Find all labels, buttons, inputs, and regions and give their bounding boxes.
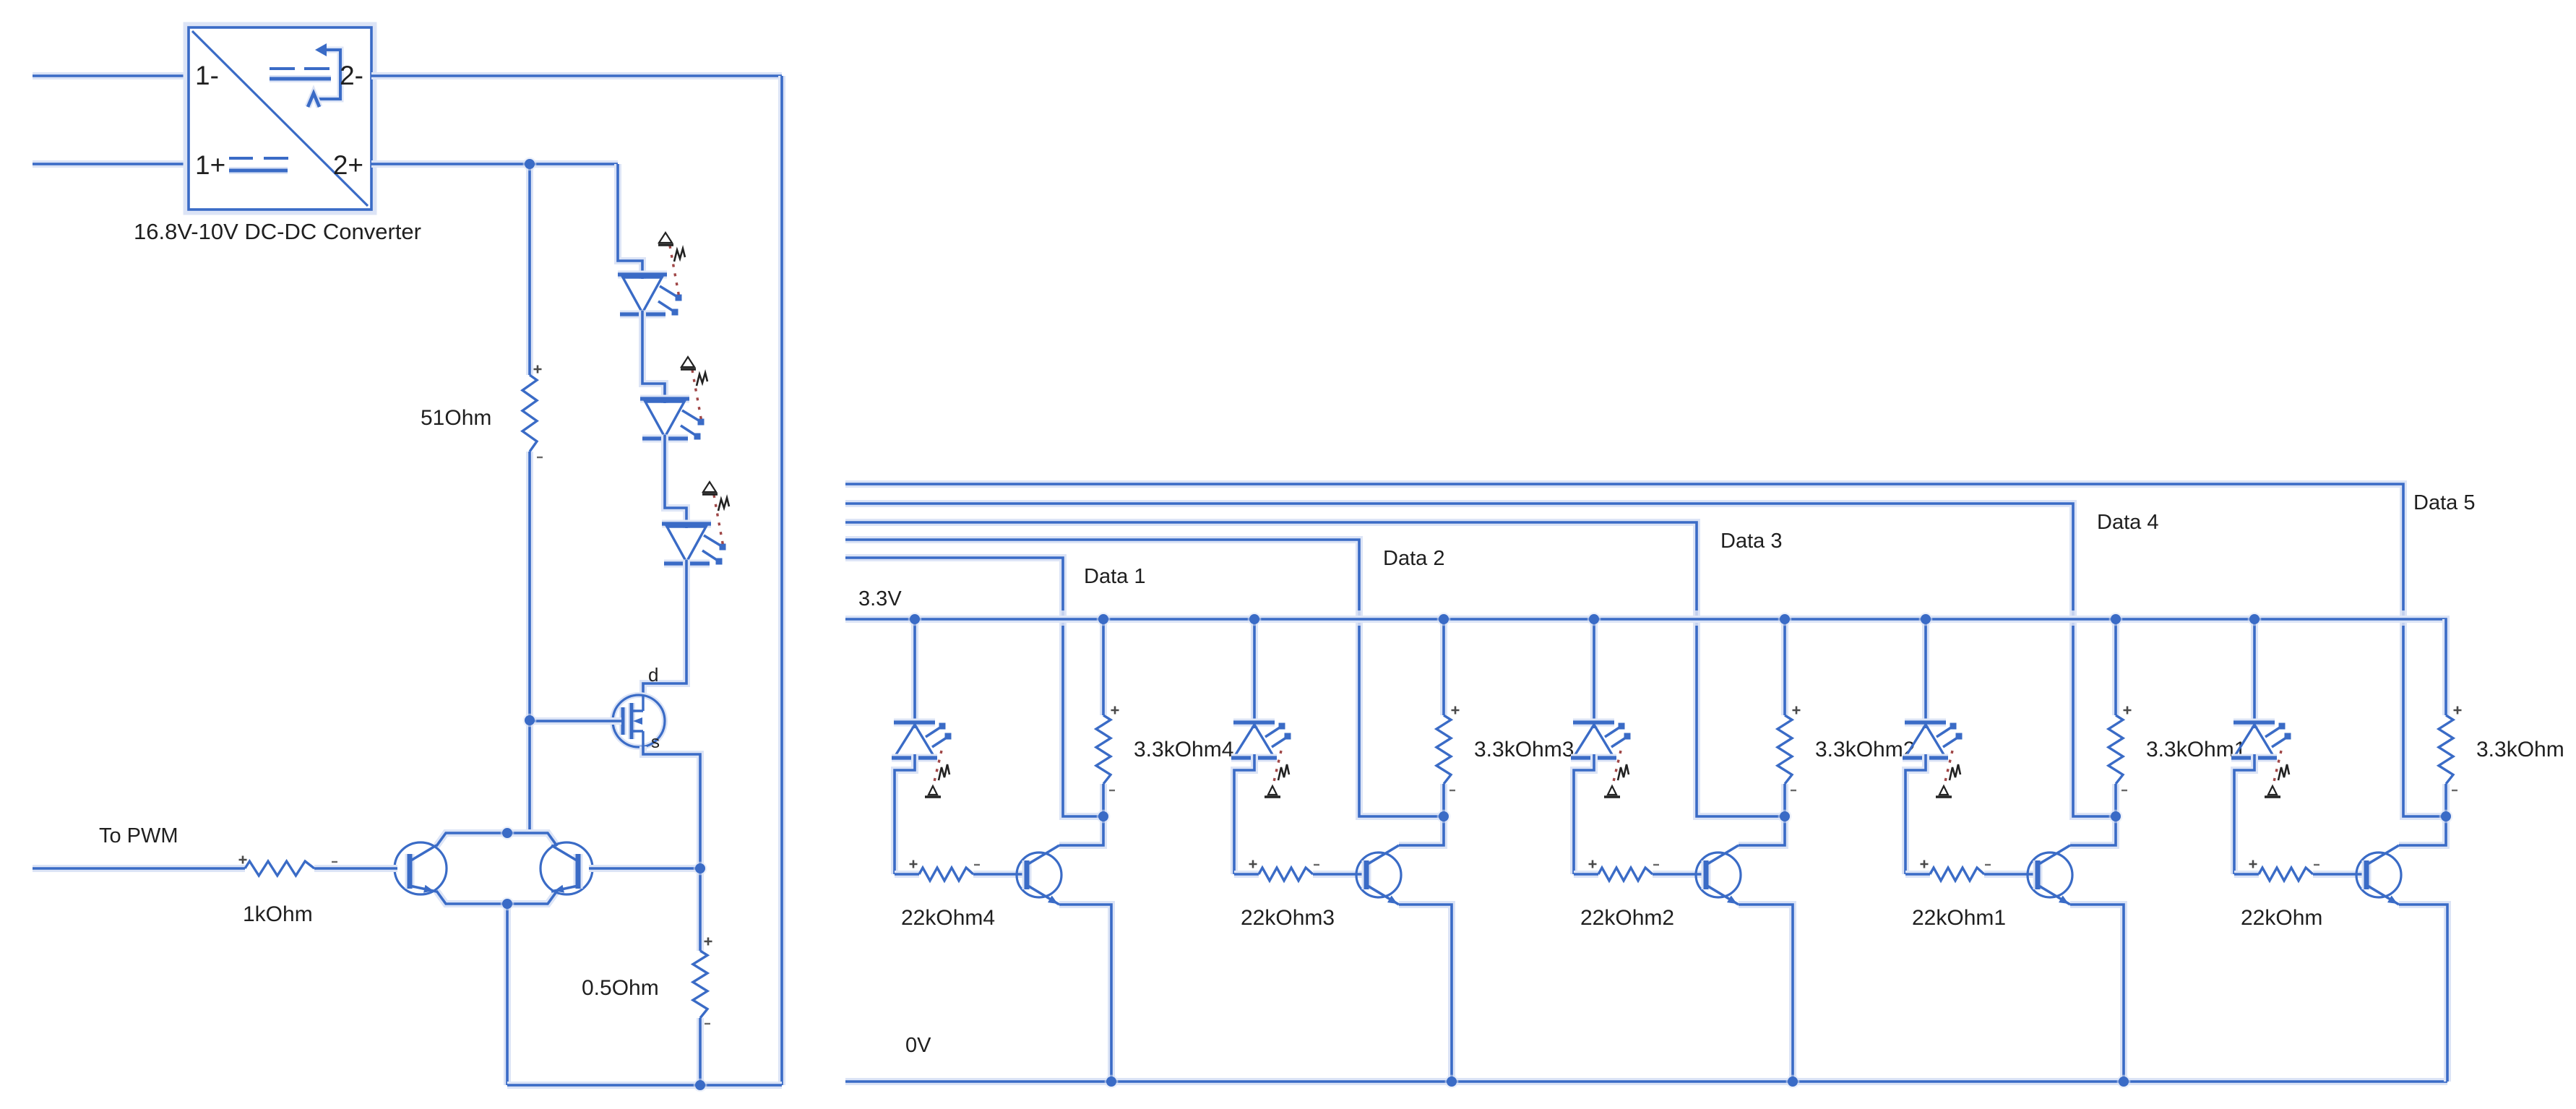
label Data 4 bbox=[2097, 511, 2158, 534]
wire gate to 51Ohm node bbox=[530, 717, 621, 725]
svg-text:3.3V: 3.3V bbox=[858, 587, 902, 610]
LED D8 (channel 5) bbox=[2231, 722, 2291, 797]
wire collector to resistor node (channel 2) bbox=[1399, 816, 1444, 845]
label 3.3V bbox=[858, 587, 902, 610]
label 22kOhm2 bbox=[1580, 906, 1674, 930]
transistor Q5 (channel 2) bbox=[1356, 845, 1401, 905]
junction node collector / 3.3kOhm4 bbox=[1097, 810, 1111, 824]
wire D3 cathode to MOSFET drain bbox=[643, 560, 686, 696]
svg-text:0.5Ohm: 0.5Ohm bbox=[582, 976, 659, 1000]
wire 3.3V to LED5 bbox=[2251, 619, 2258, 728]
svg-text:1+: 1+ bbox=[195, 150, 225, 180]
svg-text:51Ohm: 51Ohm bbox=[421, 406, 491, 430]
wire LED1 anode to base resistor bbox=[895, 754, 915, 874]
svg-text:22kOhm2: 22kOhm2 bbox=[1580, 906, 1674, 930]
junction node 3.3V / LED1 column bbox=[908, 613, 922, 626]
wire emitter to 0V (channel 2) bbox=[1399, 905, 1452, 1082]
transistor Q8 (channel 5) bbox=[2356, 845, 2401, 905]
label To PWM bbox=[99, 824, 178, 847]
wire right vertical rail bbox=[778, 76, 785, 1085]
junction node emitter / 0V (channel 1) bbox=[1105, 1075, 1119, 1089]
label Data 1 bbox=[1084, 565, 1145, 588]
label 3.3kOhm4 bbox=[1134, 738, 1233, 761]
resistor 3.3kOhm4 bbox=[1096, 619, 1119, 816]
wire 3.3V to LED3 bbox=[1590, 619, 1598, 728]
wire D1 cathode to D2 anode bbox=[642, 311, 665, 403]
resistor 3.3kOhm bbox=[2439, 619, 2462, 816]
resistor 3.3kOhm2 bbox=[1778, 619, 1801, 816]
DC-DC converter U1 bbox=[186, 25, 374, 212]
svg-text:3.3kOhm2: 3.3kOhm2 bbox=[1815, 738, 1915, 761]
resistor R1 51Ohm bbox=[522, 164, 543, 720]
label 3.3kOhm2 bbox=[1815, 738, 1915, 761]
label Data 5 bbox=[2413, 491, 2475, 514]
LED D1 bbox=[618, 233, 685, 316]
wire input 1+ from left edge bbox=[33, 160, 189, 168]
wire 2+ output bbox=[371, 160, 618, 168]
resistor R3 0.5Ohm bbox=[693, 868, 712, 1085]
label Data 3 bbox=[1720, 530, 1782, 553]
resistor R2 1kOhm bbox=[33, 856, 397, 876]
label s (source) bbox=[651, 733, 660, 752]
junction node emitter / 0V (channel 3) bbox=[1786, 1075, 1800, 1089]
label 0V bbox=[905, 1034, 931, 1057]
transistor Q4 (channel 1) bbox=[1017, 845, 1061, 905]
svg-text:Data 5: Data 5 bbox=[2413, 491, 2475, 514]
junction node 3.3V / 3.3kOhm2 bbox=[1778, 613, 1792, 626]
transistor Q6 (channel 3) bbox=[1696, 845, 1741, 905]
wire emitter to 0V (channel 3) bbox=[1739, 905, 1793, 1082]
wire LED3 anode to base resistor bbox=[1574, 754, 1594, 874]
junction node collector / 3.3kOhm bbox=[2439, 810, 2453, 824]
wire LED5 anode to base resistor bbox=[2234, 754, 2254, 874]
junction node emitter / 0V (channel 2) bbox=[1445, 1075, 1459, 1089]
wire D2 cathode to D3 anode bbox=[665, 435, 686, 528]
junction node 3.3V / 3.3kOhm1 bbox=[2109, 613, 2123, 626]
wire Data 2 line bbox=[845, 540, 1444, 816]
junction node collector / 3.3kOhm3 bbox=[1437, 810, 1451, 824]
svg-text:1kOhm: 1kOhm bbox=[243, 902, 313, 926]
wire Data 5 line bbox=[845, 484, 2446, 816]
svg-text:To PWM: To PWM bbox=[99, 824, 178, 847]
wire LED4 anode to base resistor bbox=[1905, 754, 1926, 874]
LED D5 (channel 2) bbox=[1231, 722, 1291, 797]
resistor 3.3kOhm3 bbox=[1436, 619, 1460, 816]
svg-text:2+: 2+ bbox=[333, 150, 363, 180]
resistor 22kOhm1 bbox=[1905, 860, 2038, 881]
wire 3.3V rail bbox=[845, 619, 2446, 715]
wire 3.3V to LED1 bbox=[911, 619, 918, 728]
wire collector to resistor node (channel 1) bbox=[1059, 816, 1103, 845]
svg-text:3.3kOhm3: 3.3kOhm3 bbox=[1474, 738, 1574, 761]
wire collector to resistor node (channel 3) bbox=[1739, 816, 1785, 845]
wire BJT loop bottom bbox=[436, 891, 557, 904]
wire Q3 base to 0.5Ohm node bbox=[589, 865, 700, 872]
label 0.5Ohm bbox=[582, 976, 659, 1000]
svg-text:d: d bbox=[648, 664, 658, 686]
MOSFET Q1 bbox=[613, 695, 665, 747]
wire collector to resistor node (channel 5) bbox=[2399, 816, 2446, 845]
wire 2+ down to LED chain bbox=[618, 164, 642, 279]
wire 2- output to right vertical bbox=[371, 72, 782, 79]
transistor Q3 (right of pair) bbox=[540, 842, 593, 894]
label 22kOhm3 bbox=[1241, 906, 1335, 930]
LED D6 (channel 3) bbox=[1571, 722, 1631, 797]
junction node 3.3V / 3.3kOhm4 bbox=[1097, 613, 1111, 626]
LED D2 bbox=[640, 357, 707, 440]
label 22kOhm4 bbox=[901, 906, 995, 930]
wire Data 4 line bbox=[845, 504, 2116, 816]
wire Data 1 line bbox=[845, 558, 1103, 816]
svg-text:16.8V-10V DC-DC Converter: 16.8V-10V DC-DC Converter bbox=[134, 219, 421, 244]
junction node 3.3V / LED5 column bbox=[2248, 613, 2262, 626]
junction node 2+ / 51Ohm bbox=[523, 157, 537, 171]
resistor 22kOhm4 bbox=[895, 860, 1027, 881]
wire 51Ohm node down to BJT pair loop bbox=[526, 721, 533, 833]
junction node gate / 51Ohm bbox=[523, 714, 537, 728]
wire emitter to 0V (channel 4) bbox=[2070, 905, 2124, 1082]
wire loop bottom to ground rail bbox=[504, 904, 511, 1085]
junction node collector / 3.3kOhm1 bbox=[2109, 810, 2123, 824]
junction node 3.3V / LED2 column bbox=[1248, 613, 1262, 626]
svg-text:3.3kOhm4: 3.3kOhm4 bbox=[1134, 738, 1233, 761]
svg-text:0V: 0V bbox=[905, 1034, 931, 1057]
resistor 22kOhm3 bbox=[1234, 860, 1366, 881]
junction node 3.3V / LED4 column bbox=[1919, 613, 1933, 626]
transistor Q7 (channel 4) bbox=[2028, 845, 2072, 905]
label Data 2 bbox=[1383, 547, 1444, 570]
junction node 3.3V / LED3 column bbox=[1588, 613, 1601, 626]
wire emitter to 0V (channel 1) bbox=[1059, 905, 1111, 1082]
wire collector to resistor node (channel 4) bbox=[2070, 816, 2116, 845]
LED D7 (channel 4) bbox=[1903, 722, 1963, 797]
wire BJT loop top bbox=[436, 833, 557, 846]
svg-text:3.3kOhm1: 3.3kOhm1 bbox=[2146, 738, 2246, 761]
label 3.3kOhm3 bbox=[1474, 738, 1574, 761]
wire bottom rail bbox=[507, 1082, 782, 1089]
label 51Ohm bbox=[421, 406, 491, 430]
wire 0V rail bbox=[845, 1078, 2447, 1085]
label 22kOhm bbox=[2241, 906, 2322, 930]
svg-text:22kOhm4: 22kOhm4 bbox=[901, 906, 995, 930]
svg-text:22kOhm1: 22kOhm1 bbox=[1912, 906, 2006, 930]
wire 3.3V to LED4 bbox=[1922, 619, 1929, 728]
label 3.3kOhm bbox=[2476, 738, 2564, 761]
junction node loop bottom bbox=[501, 897, 514, 911]
LED D3 bbox=[662, 482, 729, 565]
svg-text:22kOhm: 22kOhm bbox=[2241, 906, 2322, 930]
svg-text:1-: 1- bbox=[195, 61, 219, 90]
junction node 0.5Ohm / bottom rail bbox=[694, 1079, 707, 1092]
LED D4 (channel 1) bbox=[892, 722, 952, 797]
wire Data 3 line bbox=[845, 522, 1785, 816]
junction node loop top bbox=[501, 827, 514, 840]
svg-text:3.3kOhm: 3.3kOhm bbox=[2476, 738, 2564, 761]
transistor Q2 (left of pair) bbox=[395, 842, 447, 894]
wire input 1- from left edge bbox=[33, 72, 189, 79]
label 16.8V-10V DC-DC Converter bbox=[134, 219, 421, 244]
svg-text:Data 2: Data 2 bbox=[1383, 547, 1444, 570]
junction node collector / 3.3kOhm2 bbox=[1778, 810, 1792, 824]
resistor 22kOhm2 bbox=[1574, 860, 1706, 881]
svg-text:22kOhm3: 22kOhm3 bbox=[1241, 906, 1335, 930]
junction node source / 0.5Ohm bbox=[694, 862, 707, 876]
junction node emitter / 0V (channel 4) bbox=[2117, 1075, 2131, 1089]
label d (drain) bbox=[648, 664, 658, 686]
label 3.3kOhm1 bbox=[2146, 738, 2246, 761]
wire 3.3V to LED2 bbox=[1251, 619, 1258, 728]
label 22kOhm1 bbox=[1912, 906, 2006, 930]
svg-text:s: s bbox=[651, 733, 660, 752]
wire emitter to 0V (channel 5) bbox=[2399, 905, 2447, 1082]
svg-text:2-: 2- bbox=[340, 61, 363, 90]
wire MOSFET source to 0.5Ohm node bbox=[643, 746, 700, 868]
resistor 22kOhm bbox=[2234, 860, 2366, 881]
label 1kOhm bbox=[243, 902, 313, 926]
svg-text:Data 4: Data 4 bbox=[2097, 511, 2158, 534]
junction node 3.3V / 3.3kOhm3 bbox=[1437, 613, 1451, 626]
wire LED2 anode to base resistor bbox=[1234, 754, 1254, 874]
resistor 3.3kOhm1 bbox=[2108, 619, 2132, 816]
svg-text:Data 3: Data 3 bbox=[1720, 530, 1782, 553]
svg-text:Data 1: Data 1 bbox=[1084, 565, 1145, 588]
